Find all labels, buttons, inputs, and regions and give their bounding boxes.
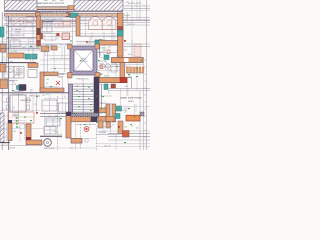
svg-text:1.2: 1.2 — [100, 119, 102, 121]
svg-text:0.9: 0.9 — [64, 96, 66, 98]
svg-text:0.90: 0.90 — [128, 54, 131, 56]
svg-text:0.93: 0.93 — [46, 79, 49, 81]
svg-text:2.0: 2.0 — [3, 57, 5, 59]
svg-text:ΕΛΑΧ ΚΑΤΨ 2.20: ΕΛΑΧ ΚΑΤΨ 2.20 — [10, 34, 24, 37]
svg-text:1.10: 1.10 — [34, 104, 37, 106]
svg-text:0.45: 0.45 — [125, 86, 128, 88]
svg-text:1.35: 1.35 — [42, 95, 45, 97]
svg-text:0.90: 0.90 — [46, 47, 49, 49]
svg-text:2.05: 2.05 — [48, 116, 51, 118]
svg-text:1.10: 1.10 — [8, 19, 11, 21]
svg-text:2.07: 2.07 — [8, 47, 11, 49]
svg-text:1.48: 1.48 — [108, 47, 111, 49]
svg-text:ΑΝΩΤ.ΔΙΩΡ.ΟΦΟΥ ΙΣΟΓ.ΚΤΙΡ: ΑΝΩΤ.ΔΙΩΡ.ΟΦΟΥ ΙΣΟΓ.ΚΤΙΡ — [38, 2, 65, 5]
svg-text:1.48 0.90: 1.48 0.90 — [8, 148, 15, 150]
svg-text:0.90 2.2: 0.90 2.2 — [104, 76, 110, 78]
svg-text:0.35: 0.35 — [36, 47, 39, 49]
svg-text:0.85: 0.85 — [116, 51, 119, 53]
svg-text:0.35 1.20: 0.35 1.20 — [116, 56, 122, 58]
svg-text:2.5: 2.5 — [109, 70, 111, 72]
svg-text:0.35: 0.35 — [70, 148, 73, 150]
svg-text:1.10 0.8: 1.10 0.8 — [124, 108, 130, 110]
svg-text:ΥΠΝΟΔΩΜ 1.05: ΥΠΝΟΔΩΜ 1.05 — [76, 78, 88, 81]
svg-text:15.82: 15.82 — [58, 76, 63, 78]
svg-text:0.35 2.10 0.35: 0.35 2.10 0.35 — [42, 11, 52, 13]
svg-text:0.93 2.0: 0.93 2.0 — [88, 42, 94, 44]
svg-text:0.45: 0.45 — [136, 128, 139, 130]
svg-text:0.60: 0.60 — [10, 61, 13, 63]
svg-text:0.9: 0.9 — [131, 126, 133, 128]
svg-text:0.35: 0.35 — [30, 90, 33, 92]
svg-text:0.90: 0.90 — [13, 131, 16, 133]
svg-text:0.35 2.28 0.35: 0.35 2.28 0.35 — [44, 148, 54, 150]
svg-text:ΨΥ ΘΑΛΑΜ Ι: ΨΥ ΘΑΛΑΜ Ι — [11, 28, 23, 31]
svg-text:0.60: 0.60 — [98, 52, 101, 54]
svg-text:ΛΟΥΤΡΟ: ΛΟΥΤΡΟ — [100, 61, 107, 63]
svg-text:0.90 1.25 2.0: 0.90 1.25 2.0 — [46, 45, 55, 47]
svg-text:1.10: 1.10 — [124, 112, 127, 114]
svg-text:0.45: 0.45 — [104, 107, 107, 109]
svg-text:ΤΡΑΠΕΖΑΡΙΑ: ΤΡΑΠΕΖΑΡΙΑ — [20, 99, 32, 102]
svg-text:0.05x 2.0: 0.05x 2.0 — [100, 48, 107, 50]
svg-text:0.93: 0.93 — [46, 94, 49, 96]
svg-text:0.35: 0.35 — [12, 108, 15, 110]
svg-text:1.48: 1.48 — [22, 47, 25, 49]
svg-text:2.0: 2.0 — [58, 47, 60, 49]
svg-text:0.35: 0.35 — [124, 50, 127, 52]
svg-text:0.9: 0.9 — [60, 134, 62, 136]
svg-text:0.45: 0.45 — [76, 86, 79, 88]
svg-text:61/8.2: 61/8.2 — [128, 101, 133, 103]
svg-text:ΕΞΩΣΤ ΚΑΤΑΣΤ 1.ΚΤΙΡ: ΕΞΩΣΤ ΚΑΤΑΣΤ 1.ΚΤΙΡ — [44, 18, 64, 21]
svg-text:1.05: 1.05 — [78, 92, 81, 94]
svg-text:0.85: 0.85 — [124, 127, 127, 129]
svg-text:0.45: 0.45 — [126, 2, 129, 4]
svg-text:ΔΩΜΑ Σ ΚΟΙΝΗ ΤΗΣΕΩΣ: ΔΩΜΑ Σ ΚΟΙΝΗ ΤΗΣΕΩΣ — [120, 97, 142, 100]
svg-text:2.28: 2.28 — [54, 115, 57, 117]
svg-text:15.362: 15.362 — [15, 32, 21, 34]
svg-text:0.35: 0.35 — [100, 113, 103, 115]
svg-text:ΕΞΩΣΤΗΣ: ΕΞΩΣΤΗΣ — [99, 132, 106, 134]
svg-text:0.8: 0.8 — [112, 125, 114, 127]
svg-text:0.35 1.10: 0.35 1.10 — [128, 24, 134, 26]
svg-text:Σκυροδ.: Σκυροδ. — [124, 15, 131, 17]
svg-text:ΧΩΡΟΣ ΥΠΟΔ: ΧΩΡΟΣ ΥΠΟΔ — [29, 95, 41, 98]
svg-text:2.07 1.48: 2.07 1.48 — [10, 51, 17, 53]
svg-text:0.90 1.10: 0.90 1.10 — [100, 103, 106, 105]
svg-text:2.0: 2.0 — [46, 83, 48, 85]
svg-text:ΩΓΟΣ 4.05: ΩΓΟΣ 4.05 — [80, 61, 88, 63]
